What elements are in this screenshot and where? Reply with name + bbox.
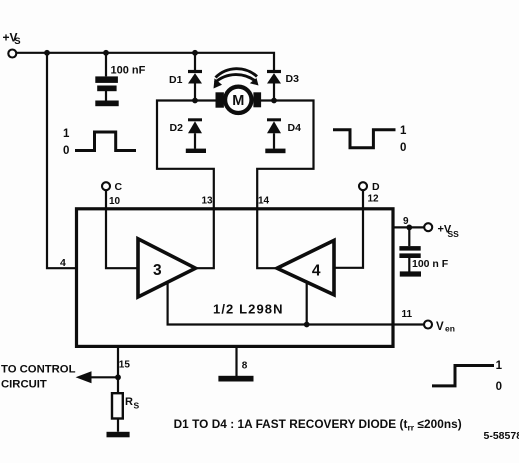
svg-text:1: 1 [63,128,70,140]
svg-text:0: 0 [63,145,69,157]
svg-text:0: 0 [496,381,502,393]
svg-text:D4: D4 [288,122,302,134]
svg-text:10: 10 [109,196,121,207]
svg-text:100 n F: 100 n F [412,258,449,270]
svg-text:14: 14 [258,196,270,207]
svg-text:D1 TO D4 : 1A FAST RECOVERY DI: D1 TO D4 : 1A FAST RECOVERY DIODE (trr ≤… [174,417,462,433]
svg-text:13: 13 [202,196,214,207]
svg-text:4: 4 [312,263,321,280]
svg-text:0: 0 [400,142,406,154]
svg-text:R: R [125,396,133,408]
svg-text:CIRCUIT: CIRCUIT [1,379,47,391]
svg-text:en: en [445,324,455,334]
svg-text:M: M [232,93,244,109]
svg-text:1/2 L298N: 1/2 L298N [213,302,284,317]
svg-text:11: 11 [402,309,413,320]
svg-text:1: 1 [400,125,407,137]
svg-text:D1: D1 [169,74,183,86]
svg-text:C: C [115,181,123,193]
svg-text:5-58578: 5-58578 [484,430,519,442]
svg-text:4: 4 [60,257,66,269]
svg-text:3: 3 [153,262,162,279]
svg-text:15: 15 [119,360,131,371]
svg-text:SS: SS [448,229,460,239]
svg-text:S: S [14,36,20,47]
svg-text:S: S [134,401,140,411]
svg-text:100 nF: 100 nF [111,65,146,77]
svg-text:9: 9 [403,216,409,227]
svg-text:D2: D2 [170,122,184,134]
svg-text:V: V [436,321,444,333]
svg-text:D3: D3 [286,73,300,85]
svg-text:12: 12 [368,194,380,205]
svg-text:D: D [372,181,380,193]
svg-text:8: 8 [242,361,248,372]
svg-text:1: 1 [496,360,503,372]
svg-text:TO CONTROL: TO CONTROL [1,364,76,376]
